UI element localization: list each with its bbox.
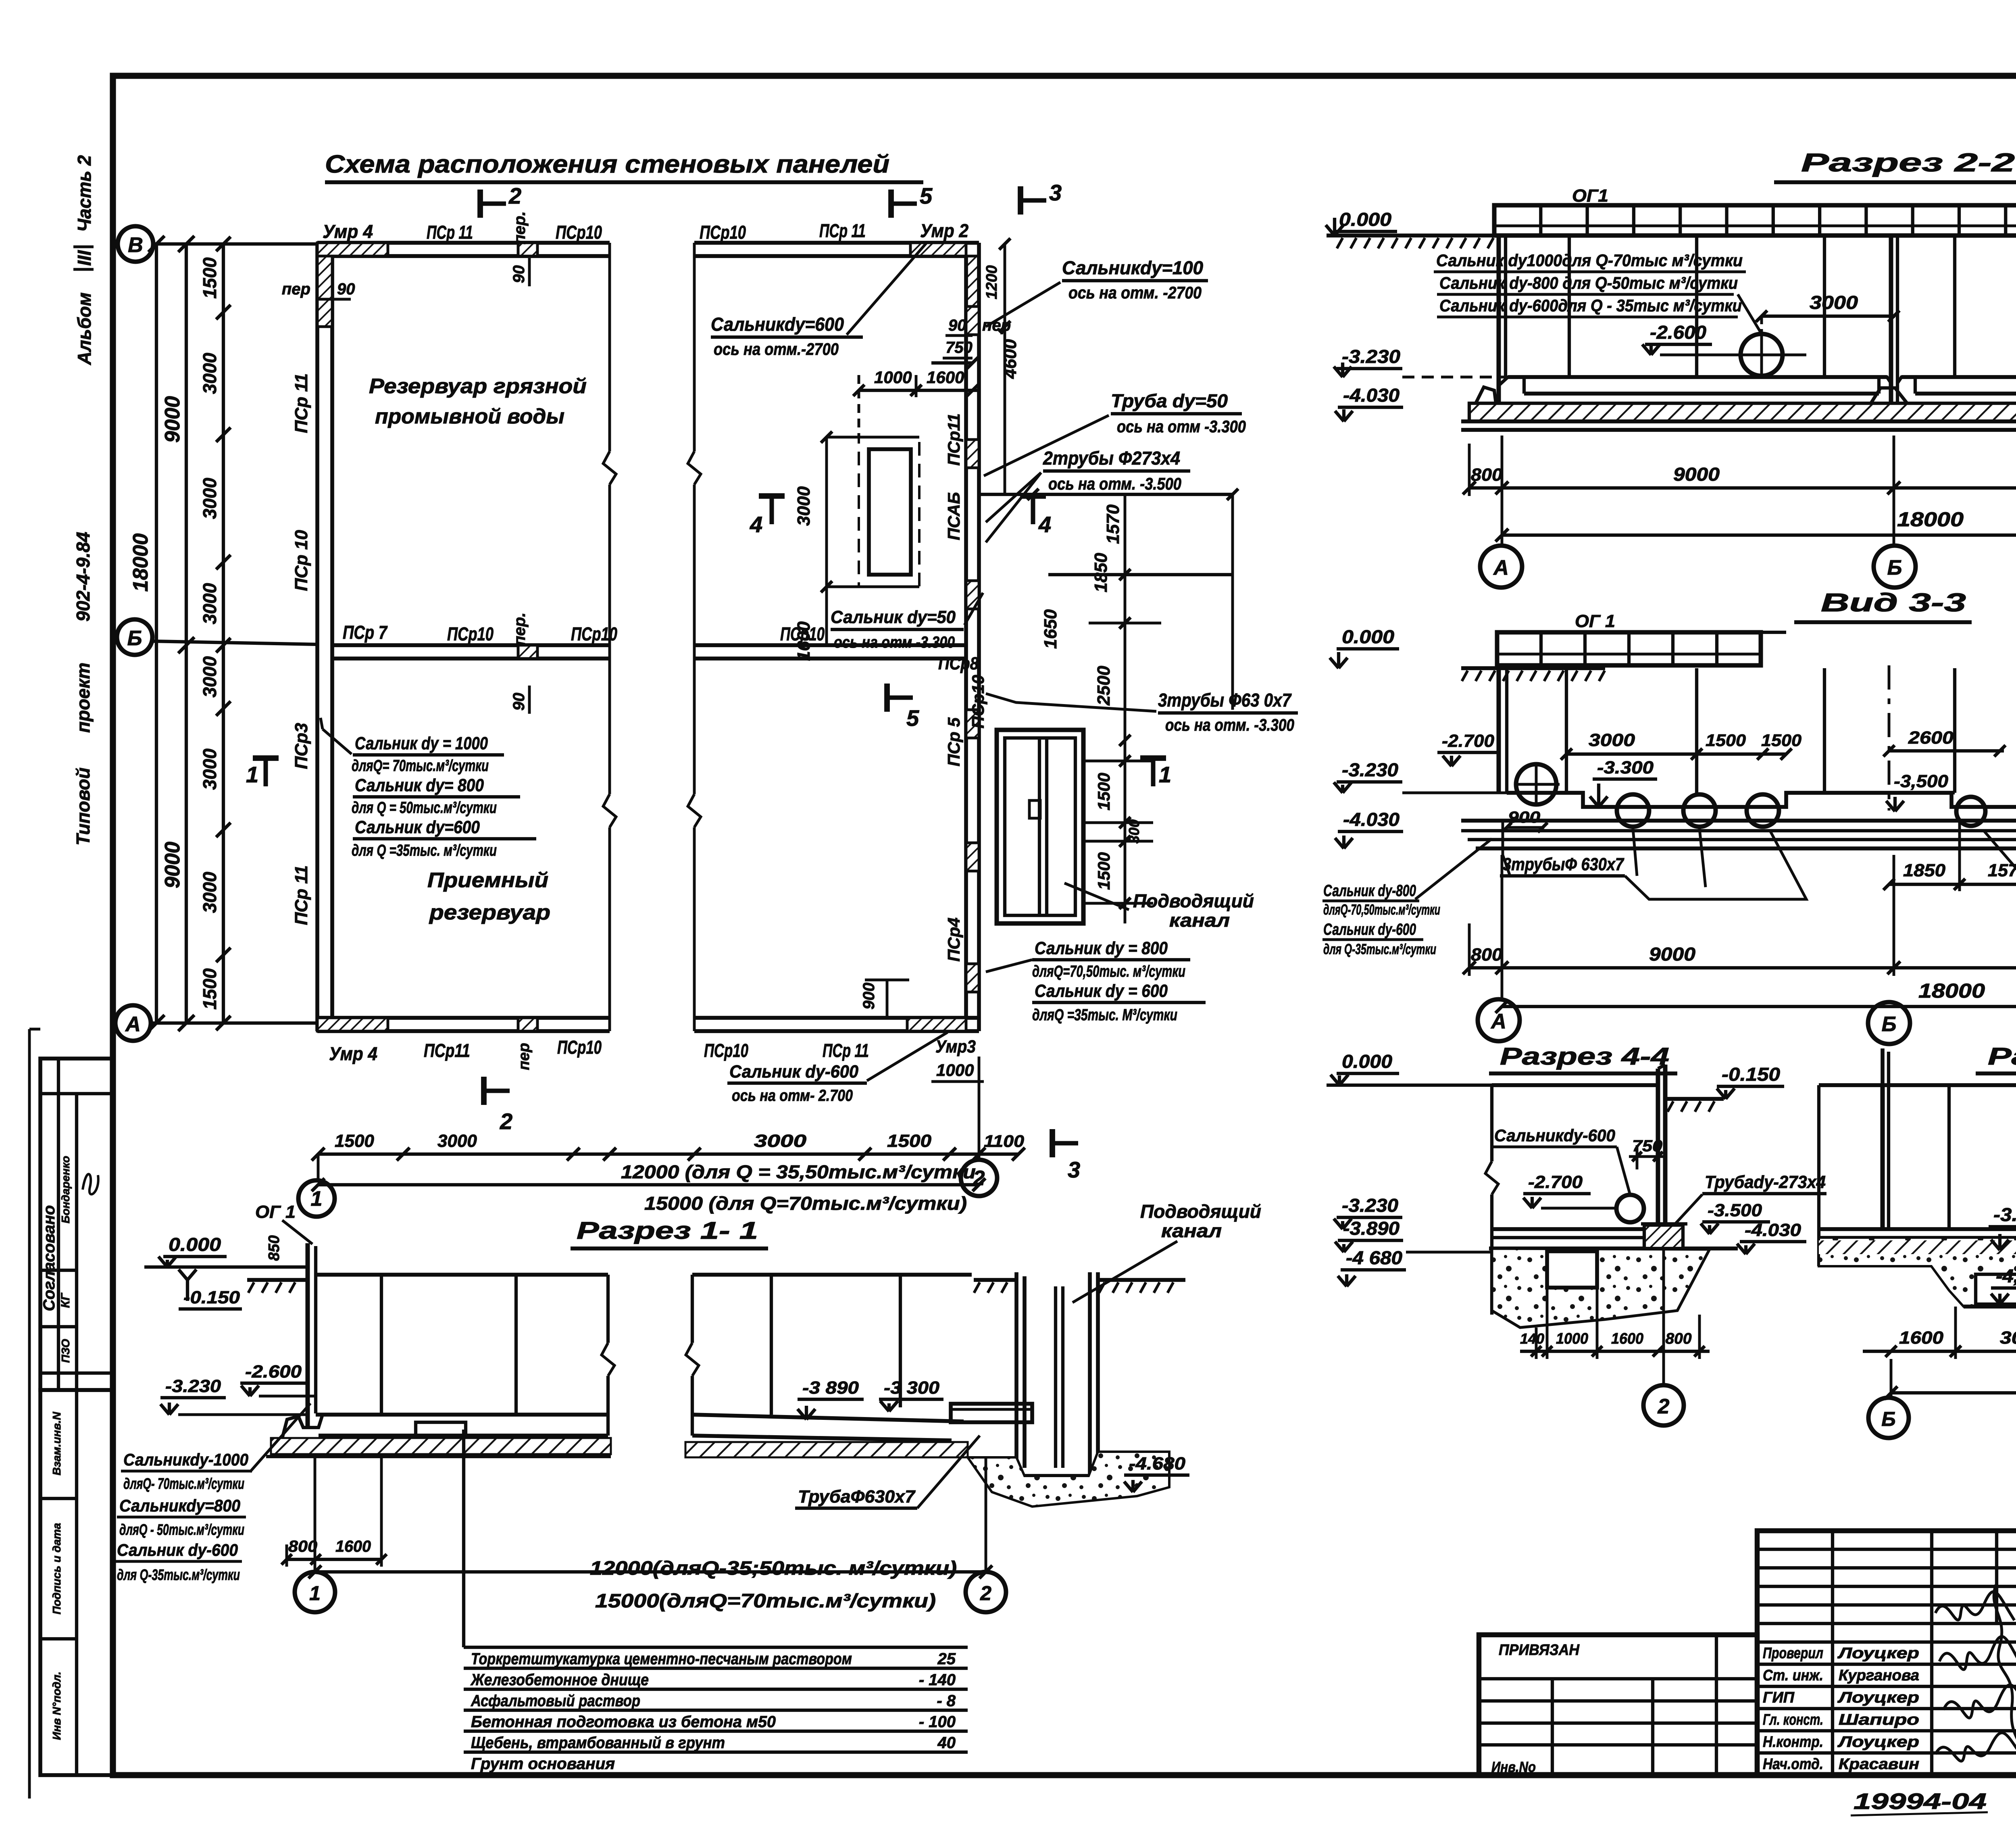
plan Б wall band (right section) [694, 643, 966, 647]
view 3-3 floor line with recesses [1507, 793, 2016, 807]
plan wall hatch: corner panel Умр4 [317, 243, 388, 256]
svg-text:ось на отм -3.300: ось на отм -3.300 [1117, 417, 1246, 436]
svg-text:800: 800 [1471, 465, 1503, 485]
svg-text:Гл. конст.: Гл. конст. [1763, 1711, 1823, 1728]
dim line at y=1226 (right of plan) [979, 493, 1233, 496]
svg-text:3000: 3000 [2000, 1328, 2016, 1348]
view 3-3 ground line [1461, 666, 1605, 670]
svg-text:1600: 1600 [794, 621, 814, 661]
svg-text:-3.890: -3.890 [1993, 1204, 2016, 1225]
svg-text:1: 1 [1159, 762, 1171, 787]
svg-text:Ст. инж.: Ст. инж. [1763, 1667, 1823, 1684]
section 2-2 middle wall [1889, 236, 1893, 419]
section 1-1 ground left of kanal [974, 1278, 1016, 1282]
svg-text:Лоуцкер: Лоуцкер [1837, 1734, 1919, 1751]
section mark 2 (top) [477, 190, 483, 218]
plan dim line 9000+9000 (vertical) [185, 244, 188, 1023]
view 3-3 panel joints [1565, 668, 1568, 793]
section mark 3 (top) [1018, 186, 1023, 215]
svg-text:канал: канал [1161, 1220, 1222, 1241]
svg-text:Б: Б [1887, 556, 1902, 579]
section mark 5 (top) [888, 190, 894, 218]
svg-text:Разрез 1- 1: Разрез 1- 1 [577, 1217, 758, 1244]
section 1-1 panel joints [380, 1275, 383, 1415]
left stamp table (Инв/Подпись block) [40, 1390, 113, 1775]
svg-text:Лоуцкер: Лоуцкер [1837, 1689, 1919, 1706]
svg-text:90: 90 [948, 317, 966, 334]
svg-text:1: 1 [246, 762, 258, 787]
svg-text:1650: 1650 [1041, 609, 1060, 649]
layers table [464, 1646, 968, 1649]
section 1-1 leader from texts to wall base [250, 1403, 310, 1472]
plan wall hatch: corner Умр2 [910, 243, 966, 256]
svg-text:1600: 1600 [1899, 1328, 1944, 1348]
svg-text:ПСр 7: ПСр 7 [343, 622, 388, 643]
section 1-1 подводящий канал walls [1014, 1272, 1018, 1472]
svg-text:Н.контр.: Н.контр. [1763, 1734, 1823, 1751]
plan right wall pier hatches [966, 306, 979, 335]
section 2-2 panel joints [1568, 236, 1571, 377]
svg-text:40: 40 [937, 1734, 956, 1752]
section 1-1 floor right room [692, 1415, 964, 1421]
svg-text:-0.150: -0.150 [183, 1288, 240, 1307]
svg-text:5: 5 [920, 183, 933, 208]
svg-text:-3 890: -3 890 [802, 1378, 859, 1398]
svg-text:15000 (для Q=70тыс.м³/сутки): 15000 (для Q=70тыс.м³/сутки) [644, 1193, 967, 1214]
opening: inner solid rect [869, 449, 911, 575]
svg-text:Сальник dy = 600: Сальник dy = 600 [1035, 981, 1168, 1001]
svg-text:Сальник dy-600для Q - 35тыс м³: Сальник dy-600для Q - 35тыс м³/сутки [1439, 296, 1742, 315]
svg-text:0.000: 0.000 [1342, 1051, 1392, 1072]
view 3-3 bottom slab lines [1461, 819, 2016, 823]
plan axis circle 2 (bottom) [978, 1089, 981, 1160]
section 2-2 ground line left [1327, 233, 1494, 238]
svg-text:Шапиро: Шапиро [1839, 1711, 1919, 1728]
section 5-5 left break [1817, 1085, 1820, 1266]
leader line from Сальник600 to wall corner [847, 242, 927, 335]
svg-text:Инв N°подл.: Инв N°подл. [50, 1671, 63, 1740]
svg-text:-4.030: -4.030 [1745, 1220, 1801, 1240]
svg-text:4: 4 [750, 512, 762, 537]
svg-text:Умр 4: Умр 4 [323, 221, 373, 242]
section 5-5 walls sticking up [1881, 1048, 1885, 1085]
svg-text:для Q-35тыс.м³/сутки: для Q-35тыс.м³/сутки [117, 1567, 240, 1584]
svg-text:Курганова: Курганова [1839, 1667, 1919, 1684]
svg-text:18000: 18000 [1918, 980, 1985, 1002]
svg-text:2трубы Ф273х4: 2трубы Ф273х4 [1043, 448, 1180, 469]
svg-text:Сальник dу1000для Q-70тыс м³/с: Сальник dу1000для Q-70тыс м³/сутки [1436, 251, 1743, 270]
svg-text:900: 900 [860, 983, 878, 1010]
svg-text:-4 680: -4 680 [1346, 1247, 1402, 1268]
svg-text:ПСр 11: ПСр 11 [292, 865, 311, 925]
svg-text:В: В [128, 233, 143, 257]
svg-text:Разрез 2-2: Разрез 2-2 [1801, 148, 2015, 177]
svg-text:дляQ=70,50тыс. м³/сутки: дляQ=70,50тыс. м³/сутки [1032, 963, 1185, 980]
svg-text:- 140: - 140 [919, 1671, 956, 1689]
svg-text:3трубы Ф63 0х7: 3трубы Ф63 0х7 [1158, 690, 1292, 711]
svg-text:ПЗО: ПЗО [59, 1339, 72, 1363]
view 3-3 pipe circles 630x7 [1617, 794, 1649, 827]
svg-text:9000: 9000 [1673, 464, 1720, 485]
section 2-2 left wall [1496, 236, 1501, 419]
svg-text:9000: 9000 [161, 396, 184, 443]
svg-text:800: 800 [1666, 1330, 1692, 1347]
svg-text:Грунт основания: Грунт основания [471, 1755, 615, 1773]
svg-text:-3.300: -3.300 [1597, 758, 1654, 777]
svg-text:3000: 3000 [1589, 730, 1635, 750]
svg-text:А: А [1493, 556, 1509, 579]
svg-text:А: А [125, 1013, 141, 1036]
leader line to right wall top [986, 282, 1060, 327]
svg-text:Сальник dy=50: Сальник dy=50 [831, 607, 956, 627]
svg-text:ТрубаФ630x7: ТрубаФ630x7 [798, 1487, 916, 1507]
vertical chain right of plan (1570/1850/1650/2500) [1231, 494, 1234, 710]
plan wall hatch: corner Умр4 bottom [317, 1018, 388, 1031]
plan bottom overall dim 12000/15000 [318, 1183, 979, 1186]
plan dim chain 1500/3000 (vertical) [222, 244, 225, 1023]
svg-text:ОГ 1: ОГ 1 [1575, 611, 1615, 631]
svg-text:ПСр10: ПСр10 [557, 1037, 602, 1058]
svg-text:III: III [74, 250, 95, 266]
plan wall hatch: corner Умр3 bottom-right [907, 1018, 966, 1031]
svg-text:проект: проект [73, 663, 94, 733]
svg-text:пер: пер [516, 1043, 533, 1070]
section 2-2 base lines [1461, 419, 2016, 423]
plan top wall band (right section) [694, 241, 979, 245]
svg-text:1: 1 [309, 1582, 321, 1605]
plan А wall band (left section) [317, 1016, 610, 1020]
svg-text:9000: 9000 [161, 842, 184, 888]
section 1-1 floor hatch band left [271, 1438, 611, 1454]
svg-text:ПСр 10: ПСр 10 [292, 530, 311, 591]
svg-text:1: 1 [311, 1187, 323, 1211]
svg-text:ПСр8: ПСр8 [938, 654, 979, 673]
section mark 4 (left) [759, 493, 785, 499]
plan А wall band (right section) [694, 1016, 979, 1020]
svg-text:ПСр10: ПСр10 [571, 623, 617, 644]
view 3-3 axis circles [1501, 976, 1504, 999]
section 4-4 break line left [1490, 1085, 1493, 1161]
svg-text:2600: 2600 [1908, 728, 1954, 748]
svg-text:3: 3 [1049, 180, 1062, 205]
dim line at y=1425 [1048, 573, 1233, 576]
svg-text:Торкретштукатурка цементно-пес: Торкретштукатурка цементно-песчаным раст… [471, 1650, 852, 1668]
svg-text:1600: 1600 [1611, 1330, 1643, 1347]
svg-text:Умр3: Умр3 [935, 1037, 976, 1057]
view 3-3 dims 3000/1500/1500 [1566, 752, 1786, 756]
svg-text:ПСр3: ПСр3 [292, 723, 311, 769]
section mark 1 (right) [1140, 755, 1166, 761]
svg-text:дляQ= 70тыс.м³/сутки: дляQ= 70тыс.м³/сутки [352, 757, 489, 775]
title block: left ПРИВЯЗАН table [1479, 1635, 1757, 1775]
svg-text:3трубыФ 630х7: 3трубыФ 630х7 [1503, 854, 1624, 874]
svg-text:-4.030: -4.030 [1343, 385, 1400, 406]
svg-text:Труба dy=50: Труба dy=50 [1111, 390, 1228, 411]
section 1-1 dims 800/1600 [287, 1558, 381, 1561]
svg-text:-0.150: -0.150 [1722, 1064, 1780, 1085]
svg-text:-3.230: -3.230 [1342, 1195, 1398, 1216]
svg-text:Сальник dy = 800: Сальник dy = 800 [1035, 938, 1168, 958]
svg-text:резервуар: резервуар [429, 901, 550, 924]
svg-text:ПСр 11: ПСр 11 [819, 220, 866, 241]
kanal dims 1500/300/1500 [1119, 755, 1131, 767]
vertical dim 3000 of opening [825, 437, 828, 587]
svg-text:Согласовано: Согласовано [40, 1205, 58, 1311]
svg-text:ось на отм.-2700: ось на отм.-2700 [714, 340, 839, 358]
svg-text:-3.500: -3.500 [1708, 1200, 1762, 1220]
svg-text:Резервуар грязной: Резервуар грязной [369, 375, 587, 398]
svg-text:для Q-35тыс.м³/сутки: для Q-35тыс.м³/сутки [1323, 941, 1436, 957]
svg-text:ПСр10: ПСр10 [447, 623, 494, 644]
svg-text:1500: 1500 [199, 257, 220, 299]
svg-text:Сальникdу-600: Сальникdу-600 [1494, 1126, 1615, 1145]
section 2-2 сальник circle [1741, 334, 1783, 376]
svg-text:4600: 4600 [1000, 339, 1020, 379]
section 2-2 bottom slab right room [1901, 375, 2016, 379]
opening: dashed outer rect [859, 437, 919, 587]
section 5-5 dims 1600/3000/4400/800 [1863, 1350, 2016, 1353]
svg-text:Б: Б [127, 627, 142, 650]
svg-text:1500: 1500 [199, 968, 220, 1010]
svg-text:Инв.No: Инв.No [1491, 1759, 1536, 1775]
section 1-1 pipe 630x7 [951, 1404, 1032, 1422]
plan wall hatch: pier top [518, 243, 537, 256]
section 5-5 hatched strip with pit [1819, 1238, 2016, 1307]
svg-text:Сальник dy = 1000: Сальник dy = 1000 [355, 734, 488, 753]
section 2-2 bottom slab left room [1508, 375, 1887, 379]
section 4-4 foundation with pit [1492, 1248, 1710, 1328]
svg-text:ПСр4: ПСр4 [944, 917, 963, 962]
section mark 4 (right) [1020, 493, 1046, 499]
svg-text:Взам.инв.N: Взам.инв.N [50, 1411, 63, 1475]
section 2-2 hatched underlay strip [1469, 403, 2016, 421]
plan break line (right section) [693, 243, 696, 452]
svg-text:Проверил: Проверил [1763, 1645, 1823, 1662]
svg-text:3000: 3000 [199, 748, 220, 790]
svg-text:1000: 1000 [874, 368, 912, 387]
section 4-4 floor lines [1492, 1227, 1658, 1231]
svg-text:1600: 1600 [927, 368, 964, 387]
section 1-1 kanal ground right [1098, 1278, 1185, 1282]
svg-text:Сальник dy-800 для Q-50тыс м³: Сальник dy-800 для Q-50тыс м³/сутки [1439, 273, 1738, 293]
section 1-1 plinth on floor [416, 1422, 466, 1436]
svg-text:Сальник dy= 800: Сальник dy= 800 [355, 775, 484, 795]
svg-text:ПСр11: ПСр11 [944, 413, 963, 466]
svg-text:900: 900 [1508, 809, 1540, 826]
axis circle Б [117, 619, 152, 655]
svg-text:Разрез 4-4: Разрез 4-4 [1500, 1043, 1669, 1070]
svg-text:ПСр 11: ПСр 11 [823, 1040, 869, 1061]
svg-text:1000: 1000 [1556, 1330, 1588, 1347]
svg-text:Трубаdy-273x4: Трубаdy-273x4 [1705, 1172, 1826, 1192]
svg-text:-4,680: -4,680 [1996, 1265, 2016, 1286]
section 2-2 axis circles А Б В [1501, 496, 1504, 545]
svg-text:Сальник dy=600: Сальник dy=600 [355, 817, 480, 837]
svg-text:-3.230: -3.230 [1342, 346, 1400, 367]
svg-text:2: 2 [980, 1582, 991, 1605]
svg-text:Сальникdу=100: Сальникdу=100 [1062, 257, 1203, 278]
section 5-5 dim 9000 [1891, 1391, 2016, 1394]
svg-text:дляQ =35тыс. М³/сутки: дляQ =35тыс. М³/сутки [1032, 1006, 1177, 1024]
svg-text:1500: 1500 [1761, 731, 1801, 750]
svg-text:-3,500: -3,500 [1894, 771, 1949, 791]
section 5-5 top line [1819, 1083, 2016, 1087]
svg-text:750: 750 [946, 339, 973, 356]
svg-text:Щебень, втрамбованный в грунт: Щебень, втрамбованный в грунт [471, 1734, 725, 1752]
svg-text:25: 25 [937, 1650, 956, 1668]
svg-text:Сальникdy=800: Сальникdy=800 [119, 1496, 240, 1515]
svg-text:Подводящий: Подводящий [1133, 890, 1254, 911]
svg-text:ПСр10: ПСр10 [556, 222, 602, 243]
svg-text:Сальник dу-800: Сальник dу-800 [1323, 882, 1416, 900]
svg-text:-3.890: -3.890 [1343, 1218, 1400, 1239]
section 2-2 dim 18000 [1502, 534, 2016, 537]
section 1-1 axis circle 2 [985, 1457, 987, 1572]
svg-text:12000(дляQ-35;50тыс. м³/сутки): 12000(дляQ-35;50тыс. м³/сутки) [590, 1558, 957, 1579]
svg-text:140: 140 [1520, 1330, 1544, 1347]
svg-text:Типовой: Типовой [73, 767, 94, 845]
axis circle В [118, 226, 153, 262]
svg-text:3000: 3000 [199, 583, 220, 624]
title block: signatures squiggles [1935, 1592, 2014, 1620]
svg-text:800: 800 [1471, 945, 1503, 965]
svg-text:ось на отм. -2700: ось на отм. -2700 [1068, 283, 1202, 302]
svg-text:-4.680: -4.680 [1129, 1454, 1186, 1473]
svg-text:902-4-9.84: 902-4-9.84 [73, 532, 94, 622]
svg-text:2: 2 [973, 1167, 985, 1190]
svg-text:3000: 3000 [754, 1131, 807, 1151]
svg-text:Железобетонное днище: Железобетонное днище [470, 1671, 649, 1689]
svg-text:2: 2 [500, 1109, 512, 1134]
svg-text:3000: 3000 [199, 656, 220, 698]
left margin thin border [28, 1029, 31, 1799]
svg-text:-2.600: -2.600 [1650, 322, 1706, 343]
svg-text:1570: 1570 [1103, 504, 1123, 544]
svg-text:Альбом: Альбом [74, 292, 95, 365]
view 3-3 dim 2600 [1889, 749, 2004, 752]
axis line Б [152, 641, 319, 644]
leader from text block to left wall [323, 729, 352, 754]
svg-text:А: А [1490, 1010, 1506, 1033]
svg-text:пер.: пер. [511, 613, 529, 646]
leader 3трубы to wall [986, 694, 1156, 711]
svg-text:Подводящий: Подводящий [1140, 1201, 1261, 1222]
section 2-2 dim 3000 to сальник [1762, 315, 1895, 318]
svg-text:Сальник dy-600: Сальник dy-600 [729, 1062, 859, 1082]
plan bottom dim chain [318, 1153, 1018, 1156]
svg-text:ПСр11: ПСр11 [424, 1040, 470, 1061]
svg-text:18000: 18000 [129, 534, 152, 592]
svg-text:Умр 4: Умр 4 [329, 1043, 377, 1064]
left stamp table (Согласовано block) [40, 1059, 113, 1390]
section 1-1 wall footing [282, 1416, 308, 1438]
title block: central signature table grid [1757, 1531, 2016, 1775]
svg-text:Сальникdу=600: Сальникdу=600 [711, 314, 844, 335]
svg-text:1500: 1500 [335, 1131, 374, 1151]
svg-text:18000: 18000 [1897, 508, 1964, 531]
svg-text:ось на отм -3.300: ось на отм -3.300 [834, 634, 955, 651]
section 1-1 floor left room [316, 1413, 608, 1417]
axis line В [153, 242, 319, 246]
svg-text:ПРИВЯЗАН: ПРИВЯЗАН [1499, 1642, 1580, 1659]
section 4-4 ground right [1665, 1097, 1724, 1101]
view 3-3 dim 18000 [1502, 1005, 2016, 1008]
section 2-2 top slab band [1494, 205, 2016, 236]
plan break line (left section) [608, 243, 611, 452]
svg-text:3000: 3000 [199, 352, 220, 394]
svg-text:-3 300: -3 300 [884, 1378, 940, 1398]
plan top wall band (left section) [317, 241, 610, 245]
svg-text:1850: 1850 [1091, 553, 1111, 592]
svg-text:Лоуцкер: Лоуцкер [1837, 1645, 1919, 1662]
подводящий канал structure (plan) [997, 730, 1083, 923]
svg-text:Схема расположения стеновых п: Схема расположения стеновых панелей [325, 150, 889, 178]
section 4-4 dims 140/1000/1600/800 [1520, 1350, 1710, 1353]
section 1-1 bottom dim 12000/15000 [315, 1570, 986, 1573]
svg-text:90: 90 [510, 265, 528, 283]
svg-text:1850: 1850 [1903, 861, 1946, 880]
section 1-1 break lines [606, 1275, 610, 1343]
svg-text:9000: 9000 [1649, 944, 1695, 965]
svg-text:пер: пер [282, 280, 310, 298]
svg-text:1600: 1600 [335, 1538, 371, 1555]
svg-text:промывной воды: промывной воды [375, 405, 564, 428]
svg-text:1100: 1100 [984, 1132, 1024, 1150]
svg-text:2: 2 [508, 183, 521, 208]
svg-text:1500: 1500 [1094, 852, 1113, 890]
svg-text:90: 90 [510, 693, 528, 711]
svg-text:1500: 1500 [1094, 773, 1113, 810]
section 1-1 axis circle 1 [295, 1572, 335, 1612]
svg-text:Часть 2: Часть 2 [74, 155, 95, 232]
section 5-5 axis circles Б В [1890, 1359, 1893, 1396]
svg-text:5: 5 [906, 705, 919, 731]
svg-text:3000: 3000 [199, 477, 220, 519]
svg-text:-2.700: -2.700 [1528, 1172, 1583, 1192]
svg-text:0.000: 0.000 [169, 1234, 221, 1255]
plan right wall (double with joints) [964, 256, 968, 1018]
plan dim line 18000 (vertical) [155, 244, 158, 1023]
svg-text:ПСр10: ПСр10 [700, 222, 746, 243]
svg-text:ПСр10: ПСр10 [704, 1040, 748, 1061]
svg-text:канал: канал [1169, 910, 1230, 931]
svg-text:1500: 1500 [887, 1131, 932, 1151]
svg-text:Умр 2: Умр 2 [920, 220, 968, 241]
section 1-1 concrete under kanal [968, 1452, 1169, 1507]
svg-text:850: 850 [266, 1235, 283, 1261]
section 1-1 room top line [316, 1273, 608, 1277]
svg-text:1500: 1500 [1706, 731, 1746, 750]
view 3-3 dim line 800/9000/9000/800 [1469, 966, 2016, 969]
plan left wall panels [315, 243, 319, 1031]
svg-text:ось на отм- 2.700: ось на отм- 2.700 [732, 1087, 853, 1105]
view 3-3 pipe circles right [1956, 797, 1985, 826]
svg-text:ПСАБ: ПСАБ [944, 492, 963, 540]
svg-text:для Q =35тыс. м³/сутки: для Q =35тыс. м³/сутки [352, 842, 497, 859]
svg-text:Приемный: Приемный [427, 869, 548, 892]
axis circle А [115, 1005, 151, 1041]
svg-text:3000: 3000 [794, 486, 814, 526]
dim 1000/1600 above opening [859, 389, 979, 392]
section 5-5 wall interior lines [1880, 1085, 1885, 1229]
svg-text:3000: 3000 [1810, 292, 1858, 313]
svg-text:Бетонная подготовка из бетон: Бетонная подготовка из бетона м50 [471, 1713, 776, 1731]
svg-text:Сальникdy-1000: Сальникdy-1000 [123, 1450, 248, 1469]
svg-text:ПСр 5: ПСр 5 [944, 717, 963, 767]
svg-text:дляQ-70,50тыс.м³/сутки: дляQ-70,50тыс.м³/сутки [1323, 901, 1440, 918]
section 4-4 axis circle 2 [1662, 1248, 1665, 1387]
svg-text:- 8: - 8 [937, 1692, 956, 1710]
